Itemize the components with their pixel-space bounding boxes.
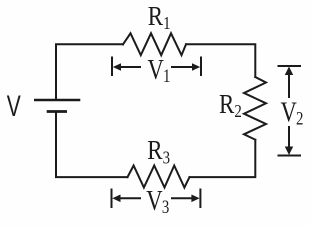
dimension arrow V2: [278, 66, 302, 156]
svg-text:R3: R3: [147, 137, 170, 168]
svg-text:R2: R2: [219, 90, 242, 121]
wire bottom-left segment: [56, 112, 128, 177]
resistor R1: [123, 33, 186, 55]
dimension arrow V1: [112, 57, 201, 77]
wire right-bottom segment: [190, 140, 256, 177]
resistor R3: [128, 166, 190, 188]
wire top-left segment: [56, 44, 123, 99]
svg-text:R1: R1: [148, 2, 171, 33]
svg-text:V1: V1: [148, 53, 171, 86]
svg-text:V2: V2: [281, 96, 304, 129]
battery V plate long: [34, 99, 80, 102]
svg-text:V: V: [7, 91, 22, 123]
resistor R2: [244, 77, 266, 140]
dimension arrow V3: [112, 189, 201, 209]
battery V plate short: [47, 110, 67, 113]
svg-text:V3: V3: [146, 185, 169, 218]
wire top-right segment: [186, 44, 255, 77]
